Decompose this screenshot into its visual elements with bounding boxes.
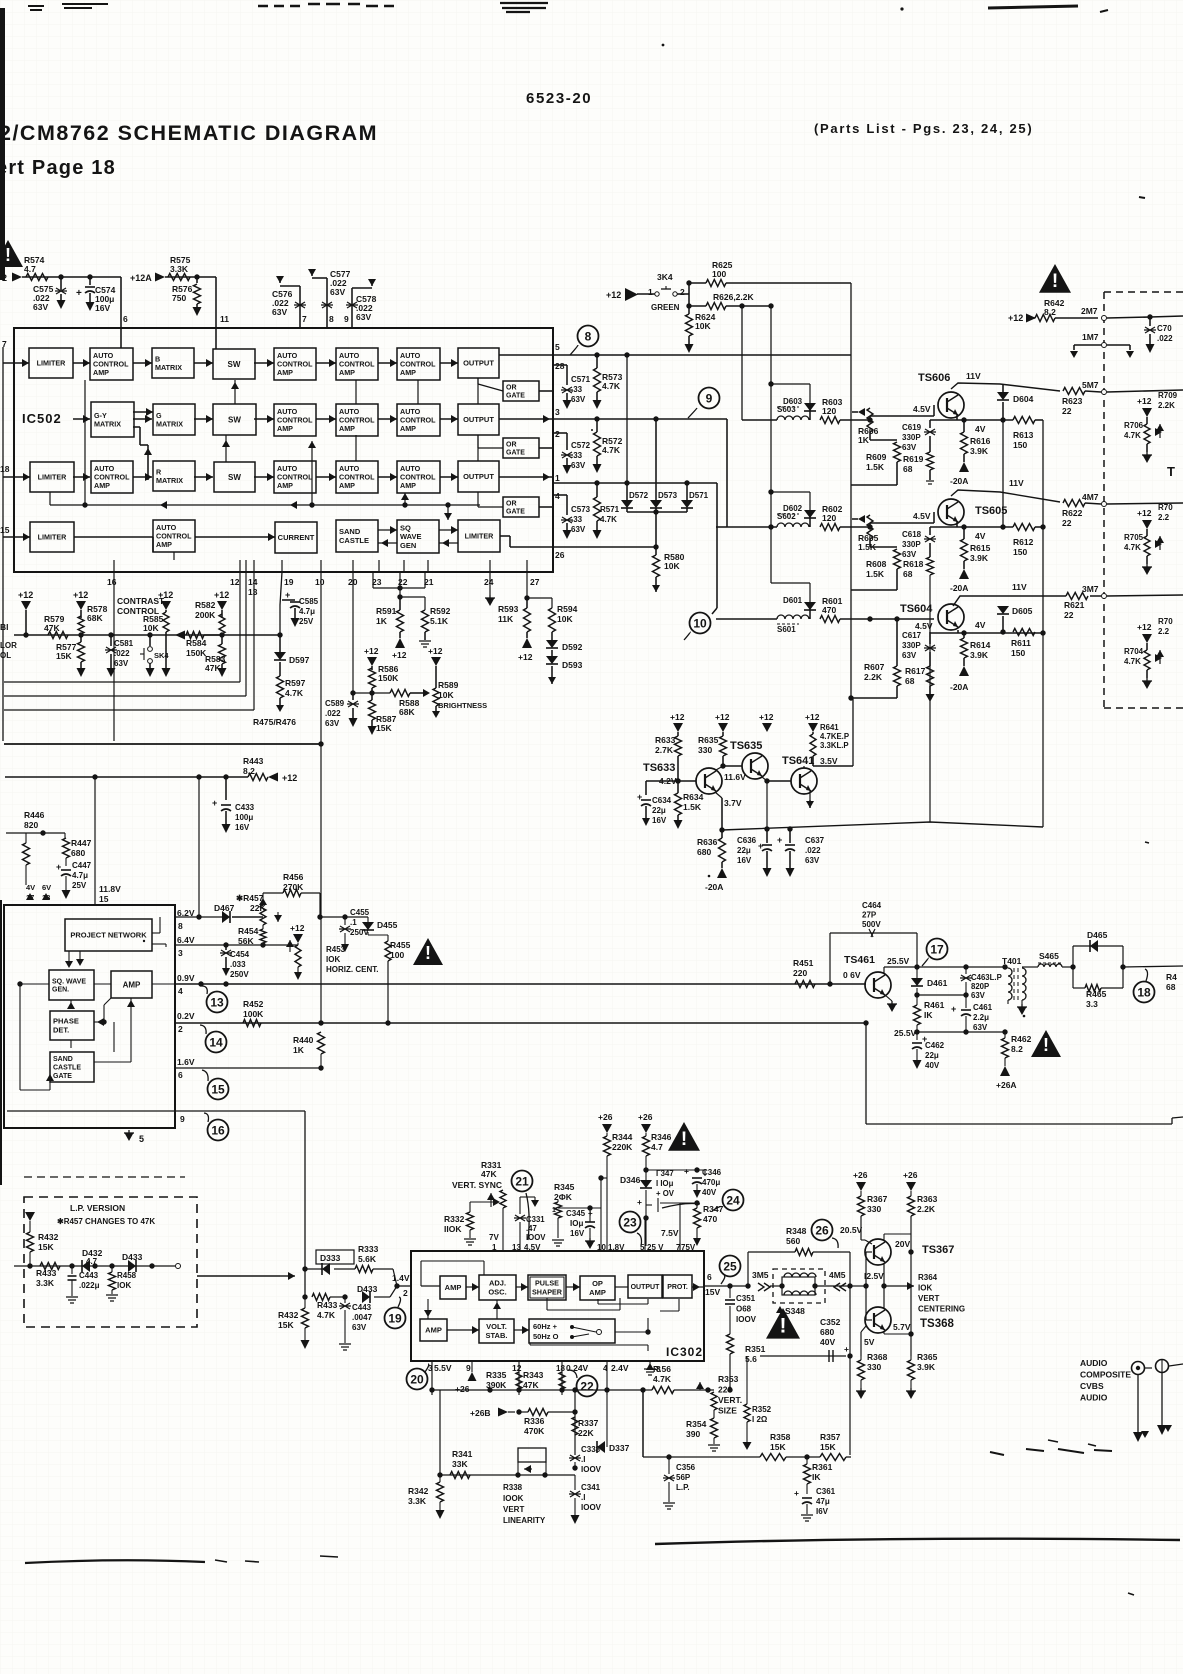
- capacitor C637: [789, 830, 791, 843]
- svg-text:500V: 500V: [862, 920, 881, 929]
- sq wave gen block mod: [49, 970, 94, 1000]
- IC302 pin8 gnd: [649, 1361, 651, 1368]
- resistor R592: [422, 610, 429, 632]
- resistor R613: [1013, 417, 1035, 424]
- capacitor C455: [344, 917, 346, 925]
- svg-text:+: +: [684, 1166, 689, 1176]
- svg-text:MATRIX: MATRIX: [156, 419, 183, 428]
- resistor R358: [760, 1454, 786, 1461]
- resistor R573: [596, 355, 598, 368]
- svg-text:22μ: 22μ: [925, 1051, 939, 1060]
- svg-text:D604: D604: [1013, 394, 1034, 404]
- svg-text:9: 9: [344, 314, 349, 324]
- svg-text:R458: R458: [117, 1271, 137, 1280]
- resistor R607: [896, 619, 898, 666]
- svg-text:-20A: -20A: [950, 682, 968, 692]
- svg-text:TS633: TS633: [643, 762, 675, 774]
- svg-text:470K: 470K: [524, 1426, 545, 1436]
- svg-text:R.56: R.56: [653, 1364, 671, 1374]
- svg-text:LIMITER: LIMITER: [465, 532, 495, 541]
- wire 0.2V long: [175, 1022, 866, 1024]
- svg-text:24: 24: [484, 577, 494, 587]
- resistor R332: [469, 1202, 471, 1212]
- diode D603 anode hook: [809, 384, 811, 403]
- resistor R582: [219, 614, 225, 634]
- svg-text:3: 3: [555, 407, 560, 417]
- project network block: [65, 919, 152, 951]
- IC302 top pin stubs: [600, 1243, 602, 1251]
- diode D605: [997, 606, 1009, 614]
- wire 6.4V: [175, 944, 298, 946]
- svg-text:19: 19: [388, 1311, 402, 1325]
- svg-text:AMP: AMP: [339, 481, 355, 490]
- svg-text:R354: R354: [686, 1419, 707, 1429]
- svg-text:3.3K: 3.3K: [36, 1278, 55, 1288]
- svg-text:CVBS: CVBS: [1080, 1381, 1104, 1391]
- svg-text:+12: +12: [1137, 396, 1152, 406]
- phase det block: [50, 1011, 94, 1040]
- circled 14: [206, 1032, 227, 1053]
- svg-text:R454: R454: [238, 926, 259, 936]
- svg-text:63V: 63V: [902, 443, 917, 452]
- svg-text:20: 20: [410, 1372, 424, 1386]
- TS604 emitter node: [957, 630, 959, 633]
- svg-text:R584: R584: [186, 638, 207, 648]
- amp block 1: [440, 1276, 466, 1299]
- svg-text:STAB.: STAB.: [486, 1331, 508, 1340]
- svg-text:100: 100: [712, 269, 726, 279]
- svg-text:200K: 200K: [195, 610, 216, 620]
- svg-text:C464: C464: [862, 901, 882, 910]
- svg-text:I IOμ: I IOμ: [656, 1179, 674, 1188]
- circled 25: [720, 1256, 741, 1277]
- capacitor C338: [569, 1455, 581, 1461]
- svg-text:15K: 15K: [38, 1242, 54, 1252]
- svg-text:1: 1: [552, 1207, 556, 1214]
- svg-text:150K: 150K: [186, 648, 207, 658]
- svg-text:GEN: GEN: [400, 541, 416, 550]
- svg-text:R589: R589: [438, 680, 459, 690]
- TS641 collector node: [803, 766, 805, 768]
- +12 up feed R593: [522, 638, 532, 648]
- svg-text:63V: 63V: [114, 659, 129, 668]
- svg-text:R333: R333: [358, 1244, 379, 1254]
- capacitor C464 bridge: [830, 932, 917, 934]
- svg-text:18: 18: [0, 464, 10, 474]
- capacitor C618: [929, 527, 931, 535]
- svg-text:C443: C443: [352, 1303, 372, 1312]
- limiter block r4: [30, 522, 74, 552]
- resistor R579: [48, 632, 68, 639]
- svg-text:560: 560: [786, 1236, 800, 1246]
- svg-text:3.3K: 3.3K: [408, 1496, 427, 1506]
- auto control amp r3c2: [91, 461, 133, 493]
- resistor R623: [1063, 388, 1085, 395]
- resistor R336: [519, 1411, 528, 1413]
- svg-text:IC302: IC302: [666, 1345, 703, 1359]
- svg-text:R612: R612: [1013, 537, 1034, 547]
- svg-text:3.7V: 3.7V: [724, 798, 742, 808]
- resistor R593: [526, 598, 528, 608]
- wire x771 clamp bus: [770, 306, 772, 583]
- resistor R574: [26, 274, 48, 281]
- rail y744: [4, 743, 321, 745]
- svg-text:R335: R335: [486, 1370, 507, 1380]
- resistor R617: [927, 666, 934, 686]
- IC502 gy-matrix links: [133, 411, 153, 413]
- B matrix block: [152, 348, 194, 378]
- svg-text:R446: R446: [24, 810, 45, 820]
- -20A feed r3: [959, 666, 969, 676]
- diode D597: [279, 635, 281, 652]
- svg-text:1K: 1K: [858, 435, 870, 445]
- svg-text:D592: D592: [562, 642, 583, 652]
- diode D573: [655, 419, 657, 500]
- +12 feed arrow left: [12, 273, 22, 282]
- svg-text:27: 27: [530, 577, 540, 587]
- svg-text:100K: 100K: [243, 1009, 264, 1019]
- SW block r1: [213, 349, 255, 379]
- svg-text:1.5K: 1.5K: [866, 462, 885, 472]
- svg-text:AMP: AMP: [339, 424, 355, 433]
- capacitor C443 main: [344, 1297, 346, 1303]
- auto control amp r1c5: [274, 348, 316, 380]
- resistor R456: [263, 892, 283, 894]
- svg-text:4.5V: 4.5V: [915, 621, 933, 631]
- svg-text:+: +: [212, 798, 217, 808]
- resistor R363: [910, 1191, 912, 1196]
- svg-text:.033: .033: [230, 960, 246, 969]
- svg-text:R443: R443: [243, 756, 264, 766]
- svg-text:4.7K: 4.7K: [1124, 543, 1141, 552]
- circled 21: [512, 1171, 533, 1192]
- svg-text:150: 150: [1011, 648, 1025, 658]
- svg-text:19: 19: [284, 577, 294, 587]
- svg-text:S602: S602: [777, 512, 796, 521]
- transistor TS367: [865, 1239, 891, 1265]
- svg-text:1.5K: 1.5K: [866, 569, 885, 579]
- svg-text:R462: R462: [1011, 1034, 1032, 1044]
- wire to base node: [840, 526, 870, 528]
- svg-text:R361: R361: [812, 1462, 833, 1472]
- TS633 emitter down: [715, 792, 722, 798]
- IC502 output2 to pin3: [499, 418, 553, 420]
- capacitor C636: [766, 781, 768, 829]
- svg-text:R582: R582: [195, 600, 216, 610]
- svg-text:.1: .1: [350, 918, 357, 927]
- svg-text:4.5V: 4.5V: [913, 511, 931, 521]
- svg-text:OUTPUT: OUTPUT: [631, 1284, 661, 1291]
- svg-text:16V: 16V: [652, 816, 667, 825]
- svg-text:MATRIX: MATRIX: [155, 363, 182, 372]
- svg-text:R347: R347: [703, 1204, 724, 1214]
- svg-text:C331: C331: [526, 1215, 545, 1224]
- svg-text:4.7KE.P: 4.7KE.P: [820, 732, 849, 741]
- svg-text:R432: R432: [278, 1310, 299, 1320]
- svg-text:R613: R613: [1013, 430, 1034, 440]
- svg-text:C571: C571: [571, 375, 591, 384]
- svg-text:16V: 16V: [570, 1229, 585, 1238]
- svg-text:330P: 330P: [902, 641, 921, 650]
- auto control amp r2c7: [397, 404, 440, 436]
- wire y1395: [432, 1389, 643, 1391]
- resistor R591: [399, 597, 401, 610]
- IC502 orgate1 out: [539, 390, 553, 392]
- auto control amp r2c5: [274, 404, 316, 436]
- TS368 wires: [883, 1286, 885, 1309]
- svg-text:!: !: [5, 245, 11, 265]
- resistor R343: [559, 1372, 565, 1389]
- LP capacitor C443a: [71, 1266, 73, 1274]
- svg-text:+12: +12: [1137, 508, 1152, 518]
- svg-text:+: +: [844, 1344, 849, 1354]
- ts63x bottom bus: [722, 822, 1043, 830]
- prot block: [663, 1275, 692, 1298]
- svg-text:15K: 15K: [278, 1320, 294, 1330]
- svg-text:.022: .022: [805, 846, 821, 855]
- rail +12 y777: [5, 776, 248, 778]
- svg-text:68: 68: [903, 464, 913, 474]
- svg-text:330P: 330P: [902, 540, 921, 549]
- resistor R345: [557, 1200, 559, 1202]
- svg-text:5.1K: 5.1K: [430, 616, 449, 626]
- resistor R625: [689, 282, 706, 284]
- svg-text:AMP: AMP: [589, 1288, 606, 1297]
- svg-text:T: T: [1167, 464, 1175, 479]
- diode D333 main: [322, 1263, 330, 1275]
- resistor R633: [677, 732, 679, 736]
- svg-text:3M5: 3M5: [752, 1270, 769, 1280]
- capacitor C433: [225, 777, 227, 800]
- svg-text:I2.5V: I2.5V: [864, 1271, 884, 1281]
- svg-text:470μ: 470μ: [702, 1178, 720, 1187]
- svg-text:GATE: GATE: [506, 509, 525, 516]
- svg-text:D593: D593: [562, 660, 583, 670]
- svg-text:5.5V: 5.5V: [434, 1363, 452, 1373]
- svg-text:CASTLE: CASTLE: [53, 1064, 81, 1071]
- svg-text:R367: R367: [867, 1194, 888, 1204]
- svg-text:3.9K: 3.9K: [970, 446, 989, 456]
- inductor S601: [777, 615, 809, 619]
- diode D461: [916, 967, 918, 978]
- svg-text:!: !: [681, 1129, 687, 1150]
- capacitor C574: [89, 277, 91, 285]
- svg-text:VOLT.: VOLT.: [486, 1322, 507, 1331]
- resistor R451: [795, 981, 815, 988]
- svg-text:LIMITER: LIMITER: [37, 359, 67, 368]
- svg-text:.I: .I: [581, 1493, 585, 1502]
- svg-text:+ OV: + OV: [656, 1189, 675, 1198]
- svg-text:11V: 11V: [1012, 582, 1027, 592]
- svg-text:16V: 16V: [95, 303, 110, 313]
- svg-text:7: 7: [302, 314, 307, 324]
- svg-text:15K: 15K: [56, 651, 72, 661]
- capacitor C572: [553, 432, 567, 434]
- wire 9-row bus: [716, 526, 727, 528]
- svg-text:150: 150: [1013, 547, 1027, 557]
- svg-text:C463L.P: C463L.P: [971, 973, 1002, 982]
- svg-text:470: 470: [822, 605, 836, 615]
- IC502 output to pin5: [499, 354, 553, 356]
- resistor R602: [820, 524, 840, 531]
- svg-text:R70: R70: [1158, 617, 1173, 626]
- svg-text:40V: 40V: [925, 1061, 940, 1070]
- svg-text:+12: +12: [759, 712, 774, 722]
- wire pin5 rail: [553, 354, 851, 356]
- inductor S603: [777, 416, 809, 420]
- svg-text:63V: 63V: [571, 461, 586, 470]
- svg-text:TS635: TS635: [730, 740, 762, 752]
- resistor R619: [927, 452, 934, 470]
- svg-text:390: 390: [686, 1429, 700, 1439]
- svg-text:+: +: [794, 1488, 799, 1498]
- svg-text:60Hz +: 60Hz +: [533, 1322, 558, 1331]
- svg-text:120: 120: [822, 406, 836, 416]
- svg-text:SQ. WAVE: SQ. WAVE: [52, 978, 86, 985]
- svg-text:.47: .47: [526, 1224, 537, 1233]
- svg-text:63V: 63V: [571, 395, 586, 404]
- svg-text:330: 330: [867, 1204, 881, 1214]
- svg-text:4.7K: 4.7K: [600, 515, 617, 524]
- svg-text:28: 28: [555, 361, 565, 371]
- svg-text:✱R457 CHANGES TO 47K: ✱R457 CHANGES TO 47K: [57, 1217, 155, 1226]
- transistor TS461: [865, 972, 891, 998]
- svg-text:4: 4: [555, 491, 560, 501]
- capacitor C701: [1149, 317, 1151, 326]
- svg-text:25V: 25V: [72, 881, 87, 890]
- IC502 bottom pin stubs: [113, 560, 115, 572]
- svg-text:R475/R476: R475/R476: [253, 717, 296, 727]
- svg-text:R353: R353: [718, 1374, 739, 1384]
- svg-text:+: +: [777, 835, 782, 845]
- svg-text:!: !: [1043, 1035, 1049, 1055]
- IC502 orgate2 out: [477, 435, 479, 448]
- svg-text:220K: 220K: [612, 1142, 633, 1152]
- capacitor C573: [553, 494, 567, 496]
- svg-text:.022: .022: [1157, 334, 1173, 343]
- diode D601: [809, 602, 811, 619]
- svg-text:63V: 63V: [330, 287, 345, 297]
- -20A feed r1: [959, 462, 969, 472]
- resistor R357: [820, 1454, 846, 1461]
- svg-text:C617: C617: [902, 631, 922, 640]
- svg-text:R704: R704: [1124, 647, 1144, 656]
- brightness wire: [353, 692, 390, 694]
- svg-text:OR: OR: [506, 500, 517, 507]
- svg-text:56K: 56K: [238, 936, 254, 946]
- top edge scan marks: [28, 6, 44, 10]
- circled 8: [578, 326, 599, 347]
- IC502 feedback bus: [50, 504, 480, 506]
- svg-text:820P: 820P: [971, 982, 989, 991]
- svg-text:R611: R611: [1011, 638, 1031, 648]
- sand castle gate block: [50, 1052, 94, 1082]
- resistor R351: [727, 1334, 734, 1354]
- svg-text:SAND: SAND: [339, 527, 361, 536]
- svg-text:I6V: I6V: [816, 1507, 829, 1516]
- svg-text:6V: 6V: [42, 883, 51, 892]
- resistor R635: [722, 732, 724, 736]
- svg-text:18: 18: [1137, 985, 1151, 999]
- svg-text:3.3KL.P: 3.3KL.P: [820, 741, 849, 750]
- svg-text:+: +: [285, 590, 290, 600]
- svg-text:63V: 63V: [571, 525, 586, 534]
- svg-text:21: 21: [515, 1174, 529, 1188]
- svg-text:4M7: 4M7: [1082, 492, 1099, 502]
- svg-text:R619: R619: [903, 454, 924, 464]
- svg-text:22: 22: [1062, 406, 1072, 416]
- svg-text:+12: +12: [805, 712, 820, 722]
- wire pin26 to 10 path: [716, 547, 718, 608]
- svg-text:D333: D333: [320, 1253, 341, 1263]
- svg-text:63V: 63V: [325, 719, 340, 728]
- right mid scan marks: [990, 1449, 1112, 1455]
- svg-text:R617: R617: [905, 666, 926, 676]
- svg-text:9: 9: [466, 1363, 471, 1373]
- svg-text:TS367: TS367: [922, 1244, 954, 1256]
- svg-text:C589: C589: [325, 699, 345, 708]
- resistor R577: [80, 635, 82, 642]
- transistor TS605: [869, 523, 871, 527]
- resistor R462: [1004, 1032, 1006, 1038]
- svg-text:25.5V: 25.5V: [887, 956, 910, 966]
- svg-text:+12: +12: [1008, 313, 1023, 323]
- svg-text:+12: +12: [428, 646, 443, 656]
- svg-text:68: 68: [1166, 982, 1176, 992]
- svg-text:1.6V: 1.6V: [177, 1057, 195, 1067]
- bottom-right scan streak: [655, 1539, 1180, 1544]
- svg-text:R626,2.2K: R626,2.2K: [713, 292, 754, 302]
- svg-text:SW: SW: [228, 360, 241, 369]
- svg-text:1.5K: 1.5K: [683, 802, 702, 812]
- svg-text:11.6V: 11.6V: [724, 772, 746, 782]
- resistor R352: [746, 1356, 748, 1404]
- svg-text:63V: 63V: [33, 302, 48, 312]
- svg-text:3M7: 3M7: [1082, 584, 1099, 594]
- svg-text:DET.: DET.: [53, 1026, 69, 1035]
- svg-text:C361: C361: [816, 1487, 836, 1496]
- svg-text:R709: R709: [1158, 391, 1178, 400]
- svg-text:C585: C585: [299, 597, 319, 606]
- resistor R609: [869, 432, 871, 440]
- resistor R597: [279, 662, 281, 676]
- svg-text:C356: C356: [676, 1463, 696, 1472]
- svg-text:R343: R343: [523, 1370, 544, 1380]
- circled 24: [723, 1190, 744, 1211]
- svg-text:R365: R365: [917, 1352, 938, 1362]
- resistor R576: [196, 277, 198, 283]
- svg-text:R345: R345: [554, 1182, 575, 1192]
- resistor R624: [688, 306, 690, 314]
- svg-text:5V: 5V: [864, 1337, 875, 1347]
- svg-text:R641: R641: [820, 723, 839, 732]
- wire x742 to row1: [741, 306, 743, 420]
- svg-text:R614: R614: [970, 640, 991, 650]
- dashed interface box: [1104, 292, 1183, 708]
- svg-text:C454: C454: [230, 950, 250, 959]
- svg-text:R609: R609: [866, 452, 887, 462]
- resistor R447: [64, 833, 66, 838]
- svg-text:PULSE: PULSE: [535, 1279, 559, 1288]
- svg-text:C618: C618: [902, 530, 922, 539]
- svg-text:10K: 10K: [695, 321, 711, 331]
- wire x199 drop: [198, 777, 200, 917]
- svg-text:3.9K: 3.9K: [917, 1362, 936, 1372]
- svg-text:GATE: GATE: [506, 393, 525, 400]
- svg-text:1.4V: 1.4V: [392, 1273, 410, 1283]
- svg-text:330P: 330P: [902, 433, 921, 442]
- svg-text:2.7K: 2.7K: [655, 745, 674, 755]
